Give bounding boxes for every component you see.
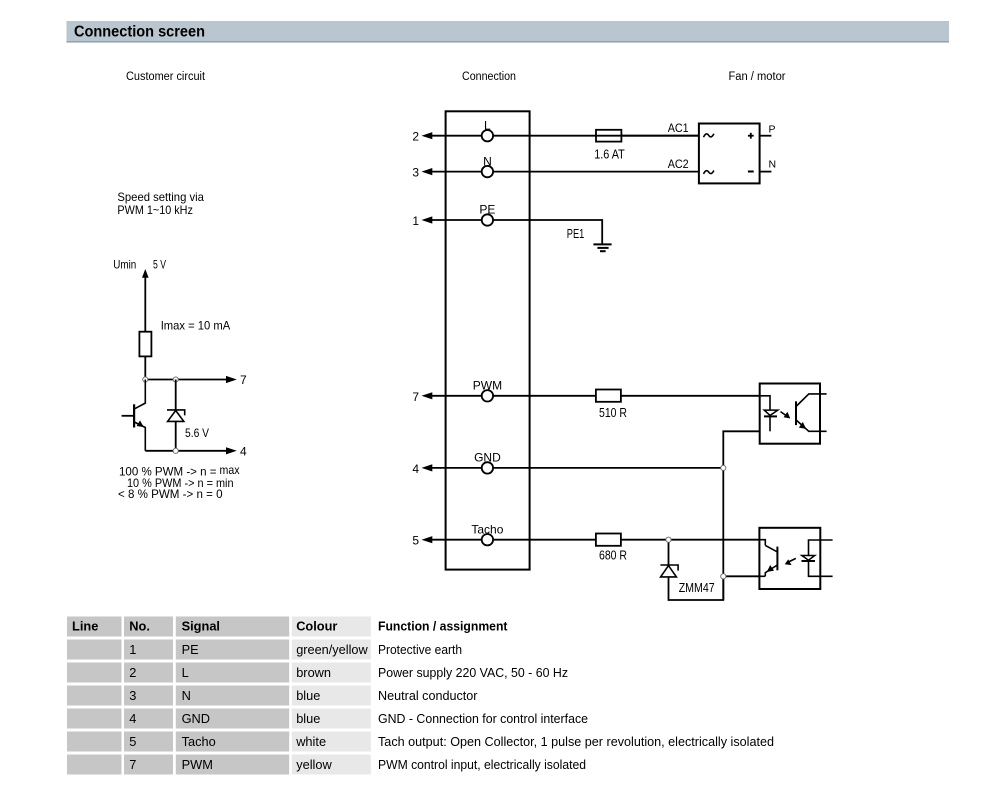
svg-text:PWM: PWM (473, 379, 502, 393)
terminal circle N (482, 166, 493, 177)
svg-text:PE: PE (182, 642, 199, 657)
svg-text:Tacho: Tacho (471, 522, 503, 536)
U2 phototransistor collector wire (759, 540, 765, 546)
transistor Q1 emitter (134, 422, 145, 451)
node tacho-zener junction (666, 537, 671, 542)
svg-text:4: 4 (129, 711, 136, 726)
svg-text:Tacho: Tacho (182, 734, 216, 749)
node junction collector (143, 377, 148, 382)
arrow pin 2 (422, 132, 433, 139)
wire terminal N to fan box (net AC2) (493, 171, 699, 173)
supply wire 5V (144, 276, 146, 332)
svg-text:max: max (220, 463, 240, 477)
U1 LED cathode wire (769, 416, 771, 431)
resistor R2 680R (596, 534, 621, 546)
svg-text:Tach output: Open Collector, 1: Tach output: Open Collector, 1 pulse per… (378, 734, 774, 749)
zener D2 top wire (175, 380, 177, 410)
title bar (67, 21, 950, 43)
svg-text:Fan / motor: Fan / motor (729, 71, 786, 83)
svg-text:N: N (182, 688, 191, 703)
svg-text:2: 2 (412, 130, 419, 144)
wire pin3 to terminal N (428, 171, 482, 173)
Q1 emitter arrow (137, 420, 144, 427)
table row 7 PWM (67, 755, 586, 775)
table row 2 L (67, 663, 568, 683)
zener D2 bottom wire (175, 421, 177, 450)
U1 LED diode (764, 410, 778, 415)
symbol + (P output) (748, 133, 754, 139)
wire R2 to optocoupler U2 (621, 539, 760, 541)
svg-text:4: 4 (412, 462, 419, 476)
terminal circle PE (482, 214, 493, 225)
terminal circle L (482, 130, 493, 141)
U2 emitter exit wire (759, 575, 765, 577)
svg-text:P: P (769, 123, 776, 135)
wire pin2 to terminal L (428, 135, 482, 137)
svg-text:Line: Line (72, 618, 98, 633)
svg-text:blue: blue (296, 688, 320, 703)
svg-text:Umin: Umin (113, 258, 136, 272)
svg-text:GND: GND (474, 451, 501, 465)
node junction zener bottom (173, 448, 178, 453)
optocoupler U1 box (760, 384, 820, 444)
svg-text:Imax = 10 mA: Imax = 10 mA (161, 319, 231, 333)
U1 light arrow (781, 412, 788, 417)
wire terminal PWM to R1 (493, 395, 596, 397)
svg-text:blue: blue (296, 711, 320, 726)
U1 emitter arrow (799, 422, 806, 429)
svg-text:ZMM47: ZMM47 (679, 581, 715, 595)
U2 phototransistor (776, 547, 778, 571)
terminal strip box X1 (446, 111, 530, 569)
transistor Q1 collector (134, 380, 145, 410)
arrow pin 7 (422, 392, 433, 399)
svg-text:GND - Connection for control i: GND - Connection for control interface (378, 711, 588, 726)
arrow pin 1 (422, 216, 433, 223)
svg-text:2: 2 (129, 665, 136, 680)
U2 light arrow (789, 558, 796, 562)
resistor R1 510R (596, 390, 621, 402)
svg-text:7: 7 (412, 390, 419, 404)
node junction zener top (173, 377, 178, 382)
wire pin7 to terminal PWM (428, 395, 482, 397)
wire R1 to optocoupler U1 (621, 395, 760, 397)
node return junction (721, 574, 726, 579)
svg-text:Function / assignment: Function / assignment (378, 618, 508, 633)
symbol ~ (AC1 input) (704, 134, 714, 137)
wire tacho node to zener D1 (668, 540, 670, 565)
svg-text:7: 7 (240, 373, 247, 387)
svg-text:yellow: yellow (296, 757, 332, 772)
svg-text:4: 4 (240, 444, 247, 458)
wire terminal PE to ground (493, 220, 602, 244)
wire U1 LED return to GND junction (723, 431, 770, 600)
svg-text:PWM 1~10 kHz: PWM 1~10 kHz (117, 203, 192, 217)
svg-text:5 V: 5 V (153, 258, 166, 272)
wire pin5 to terminal Tacho (428, 539, 482, 541)
rectifier bridge box (699, 124, 760, 184)
svg-text:1: 1 (129, 642, 136, 657)
table row 1 PE (67, 640, 462, 660)
wire node to pin 7 (145, 379, 228, 381)
svg-text:N: N (769, 159, 777, 171)
svg-text:brown: brown (296, 665, 331, 680)
U2 LED top wire (809, 540, 833, 556)
stub N (760, 171, 772, 173)
svg-text:L: L (182, 665, 189, 680)
svg-text:Speed setting via: Speed setting via (117, 190, 204, 204)
svg-text:Signal: Signal (182, 618, 220, 633)
resistor R3 (139, 332, 151, 357)
svg-text:Neutral conductor: Neutral conductor (378, 688, 478, 703)
transistor Q1 base bar (133, 404, 135, 427)
wire zener to return (669, 576, 724, 600)
arrow pin 5 (422, 536, 433, 543)
terminal circle Tacho (482, 534, 493, 545)
svg-text:5: 5 (412, 534, 419, 548)
wire resistor to node 7 (144, 356, 146, 379)
svg-text:3: 3 (129, 688, 136, 703)
svg-text:510 R: 510 R (599, 406, 627, 420)
svg-text:PE1: PE1 (567, 227, 585, 241)
terminal circle PWM (482, 390, 493, 401)
symbol ~ (AC2 input) (704, 171, 714, 174)
node GND junction (721, 465, 726, 470)
wire pin4 to terminal GND (428, 467, 482, 469)
svg-text:Connection screen: Connection screen (74, 24, 205, 41)
svg-text:PWM: PWM (182, 757, 213, 772)
wire fuse to fan box (net AC1) (621, 135, 699, 137)
svg-text:Power supply 220 VAC, 50 - 60: Power supply 220 VAC, 50 - 60 Hz (378, 665, 568, 680)
svg-text:Protective earth: Protective earth (378, 642, 462, 657)
U2 LED diode (802, 556, 815, 561)
ground symbol earth (593, 244, 611, 251)
symbol - (N output) (748, 171, 754, 173)
svg-text:green/yellow: green/yellow (296, 642, 368, 657)
table row 5 Tacho (67, 732, 774, 752)
arrow up 5V (142, 269, 149, 278)
wire terminal Tacho to R2 (493, 539, 596, 541)
table row 3 N (67, 686, 478, 706)
svg-text:7: 7 (129, 757, 136, 772)
svg-text:N: N (483, 154, 492, 168)
optocoupler U2 box (759, 528, 820, 589)
U2 emitter arrow (767, 565, 774, 572)
svg-text:PE: PE (479, 203, 495, 217)
svg-text:1: 1 (412, 214, 419, 228)
fuse F1 (596, 130, 621, 142)
stub P (760, 135, 772, 137)
svg-text:No.: No. (129, 618, 150, 633)
U1 LED anode wire (760, 396, 770, 410)
svg-text:white: white (295, 734, 326, 749)
zener diode D2 5.6V (167, 410, 185, 422)
svg-text:GND: GND (182, 711, 210, 726)
U2 LED bottom wire (809, 561, 833, 576)
table row 4 GND (67, 709, 588, 729)
arrow to 4 (226, 447, 237, 454)
wire pin1 to terminal PE (428, 219, 482, 221)
svg-text:5.6 V: 5.6 V (185, 426, 209, 440)
svg-text:1.6 AT: 1.6 AT (594, 147, 625, 161)
svg-text:PWM control input, electricall: PWM control input, electrically isolated (378, 757, 586, 772)
svg-text:L: L (484, 118, 491, 132)
svg-text:680 R: 680 R (599, 548, 627, 562)
svg-text:Customer circuit: Customer circuit (126, 71, 206, 83)
svg-text:3: 3 (412, 166, 419, 180)
terminal circle GND (482, 462, 493, 473)
svg-text:AC1: AC1 (668, 121, 689, 135)
wire emitter rail to pin 4 (145, 450, 228, 452)
U1 phototransistor (795, 401, 797, 425)
wire junction to U2 emitter (723, 575, 759, 577)
svg-text:5: 5 (129, 734, 136, 749)
svg-text:< 8 % PWM -> n = 0: < 8 % PWM -> n = 0 (118, 487, 223, 501)
arrow to 7 (226, 376, 237, 383)
wire terminal L to fuse (493, 135, 699, 137)
zener diode D1 ZMM47 (660, 565, 678, 577)
arrow pin 3 (422, 168, 433, 175)
svg-text:Colour: Colour (296, 618, 337, 633)
svg-text:Connection: Connection (462, 71, 516, 83)
svg-text:AC2: AC2 (668, 157, 689, 171)
arrow pin 4 (422, 464, 433, 471)
table header row (67, 617, 508, 637)
transistor Q1 base lead (122, 415, 135, 417)
wire terminal GND to return junction (493, 467, 723, 469)
